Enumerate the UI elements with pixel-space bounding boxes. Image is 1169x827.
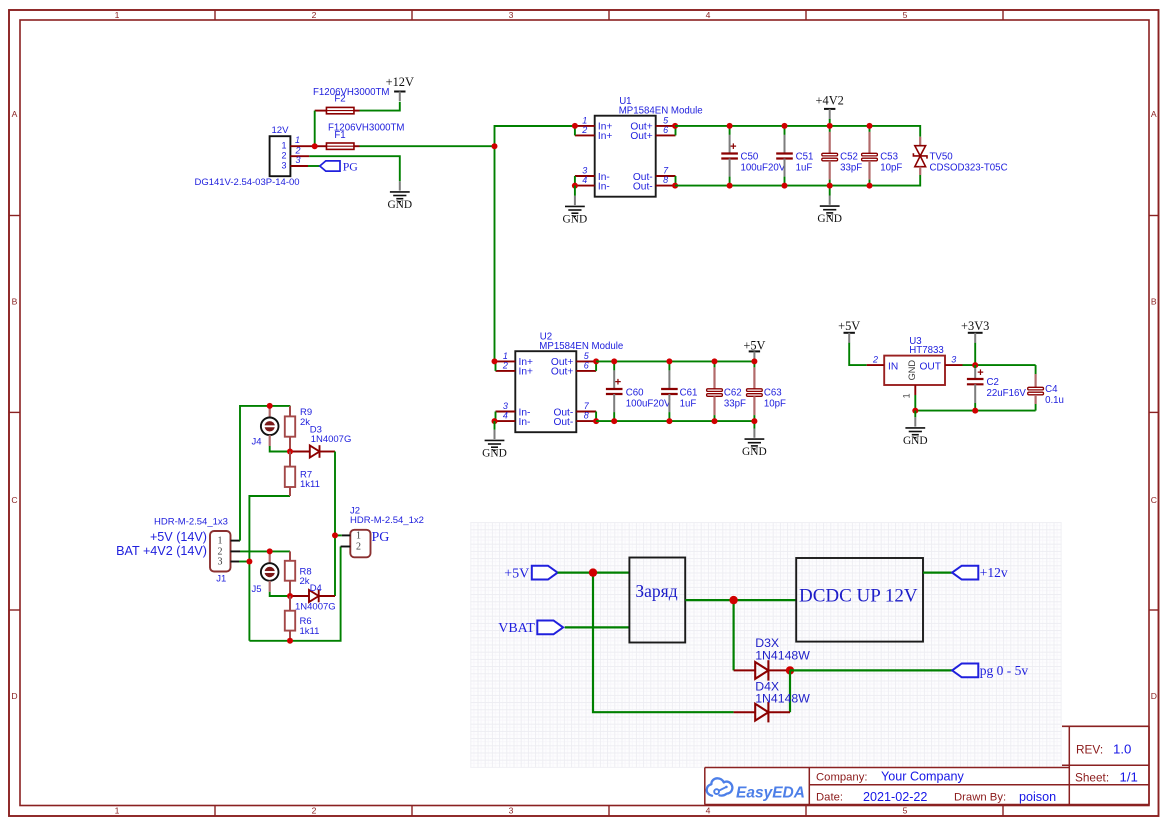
svg-text:8: 8 <box>584 411 589 421</box>
svg-text:22uF16V: 22uF16V <box>987 388 1027 399</box>
junction U1 pins 3-4 <box>572 183 578 189</box>
wire J4 bottom to node <box>270 446 290 452</box>
svg-text:In-: In- <box>519 417 531 428</box>
diode D3X 1N4148W <box>734 636 811 681</box>
svg-text:D: D <box>1151 691 1157 701</box>
wire D3 cathode down to J2/D4 <box>334 452 336 597</box>
svg-text:Out+: Out+ <box>551 367 573 378</box>
junction R9/D3/R7/J4 <box>287 449 293 455</box>
svg-text:+5V: +5V <box>504 566 529 581</box>
svg-text:GND: GND <box>563 213 588 225</box>
wire node down to D3X <box>732 600 734 670</box>
wire U3 OUT to +3V3 <box>963 364 1036 366</box>
svg-text:CDSOD323-T05C: CDSOD323-T05C <box>930 163 1008 174</box>
svg-text:1N4007G: 1N4007G <box>311 434 352 445</box>
wire VBAT to charge block <box>565 626 630 628</box>
svg-text:5: 5 <box>903 806 908 816</box>
diode D3 1N4007G <box>290 424 351 458</box>
ground (12V input) <box>387 181 412 211</box>
svg-text:6: 6 <box>663 125 668 135</box>
svg-text:OUT: OUT <box>919 362 941 373</box>
U3 pin 1 (GND) <box>902 385 916 398</box>
ground (U1 input) <box>563 196 588 226</box>
op-amp U2 MP1584EN Module <box>496 332 624 433</box>
power +5V (U2 output) <box>743 339 765 359</box>
wire D3X node to pg port <box>790 669 952 671</box>
svg-text:3: 3 <box>281 160 286 170</box>
svg-text:100uF20V: 100uF20V <box>626 398 671 409</box>
wire +5V to charge block <box>558 571 630 573</box>
fuse F2 <box>313 87 389 114</box>
svg-text:HDR-M-2.54_1x3: HDR-M-2.54_1x3 <box>154 516 228 527</box>
connector J2 HDR-M-2.54_1x2 <box>350 505 424 557</box>
svg-text:In+: In+ <box>598 131 612 142</box>
svg-text:C4: C4 <box>1045 384 1058 395</box>
pin 3 <box>290 155 308 166</box>
junction node A <box>492 143 498 149</box>
svg-text:Your Company: Your Company <box>881 770 965 784</box>
svg-text:GND: GND <box>482 447 507 459</box>
svg-text:C: C <box>11 495 17 505</box>
svg-text:1: 1 <box>218 536 223 547</box>
capacitor C2 <box>967 365 1026 411</box>
pin 2 <box>290 145 309 156</box>
svg-text:+12V: +12V <box>386 75 414 89</box>
svg-text:DG141V-2.54-03P-14-00: DG141V-2.54-03P-14-00 <box>194 177 299 188</box>
junction U2 pins 1-2 <box>492 358 498 364</box>
junction 5V rail <box>712 358 718 364</box>
svg-text:2: 2 <box>581 125 587 135</box>
wire U2 Out- rail <box>596 420 754 422</box>
junction gnd rail <box>782 183 788 189</box>
svg-text:Заряд: Заряд <box>635 581 677 601</box>
svg-text:VBAT: VBAT <box>498 621 535 636</box>
svg-text:2: 2 <box>312 806 317 816</box>
svg-text:Out-: Out- <box>633 181 653 192</box>
resistor R6 1k11 <box>285 596 320 641</box>
svg-text:TV50: TV50 <box>930 152 954 163</box>
block: charge (Заряд) <box>629 558 685 643</box>
capacitor C4 <box>1028 365 1064 411</box>
junction R6 bottom <box>287 638 293 644</box>
jumper J5 <box>252 551 279 595</box>
wire U3 gnd rail <box>915 395 1035 411</box>
svg-text:F1206VH3000TM: F1206VH3000TM <box>313 87 389 98</box>
svg-text:C51: C51 <box>796 152 814 163</box>
svg-text:1: 1 <box>503 351 508 361</box>
wire node A down to U2 In+ <box>494 146 496 361</box>
J1 pin 1 <box>231 540 241 542</box>
wire J1.1 up to top rail <box>240 406 290 541</box>
svg-text:HT7833: HT7833 <box>909 345 943 356</box>
svg-text:+5V: +5V <box>838 319 860 333</box>
wire D3X node down to D4X <box>789 670 791 712</box>
svg-text:C61: C61 <box>680 387 698 398</box>
svg-text:4: 4 <box>706 806 711 816</box>
wire U2 In- to ground <box>494 421 496 430</box>
svg-text:BAT +4V2 (14V): BAT +4V2 (14V) <box>116 544 207 558</box>
svg-text:2: 2 <box>502 360 508 370</box>
svg-text:1: 1 <box>115 10 120 20</box>
wire +5V to U3 IN <box>849 343 867 365</box>
capacitor C62 <box>707 361 746 421</box>
svg-text:1N4007G: 1N4007G <box>295 601 336 612</box>
resistor R9 2k <box>285 406 312 452</box>
svg-text:PG: PG <box>372 530 390 545</box>
jumper J4 <box>252 406 279 448</box>
power +4V2 <box>816 94 844 120</box>
svg-text:1.0: 1.0 <box>1113 742 1131 757</box>
svg-text:2k: 2k <box>300 576 310 587</box>
ground (4V2 rail) <box>829 186 831 196</box>
power +3V3 <box>961 319 989 343</box>
wire pin2 to GND <box>309 156 400 181</box>
svg-text:J4: J4 <box>252 437 262 448</box>
svg-text:IN: IN <box>888 362 898 373</box>
svg-text:pg 0 - 5v: pg 0 - 5v <box>980 663 1029 678</box>
diode D4X 1N4148W <box>734 679 811 722</box>
title block <box>705 726 1149 804</box>
svg-text:10pF: 10pF <box>880 163 902 174</box>
wire charge out to DCDC <box>685 599 796 601</box>
connector J1 HDR-M-2.54_1x3 <box>116 516 230 584</box>
svg-text:10pF: 10pF <box>764 398 786 409</box>
net port pg 0 - 5v <box>952 663 1028 678</box>
svg-text:1: 1 <box>902 393 912 398</box>
junction 5V rail <box>666 358 672 364</box>
J1 pin 2 <box>231 550 241 552</box>
svg-text:3: 3 <box>509 10 514 20</box>
capacitor C52 <box>822 126 862 186</box>
svg-text:3: 3 <box>295 155 300 165</box>
wire U1 Out+ rail <box>675 126 920 137</box>
junction 5V rail at C63 <box>751 358 757 364</box>
junction J2.1 <box>332 532 338 538</box>
svg-text:Sheet:: Sheet: <box>1075 771 1109 785</box>
svg-text:Date:: Date: <box>816 792 843 804</box>
svg-text:1k11: 1k11 <box>300 479 320 490</box>
svg-text:GND: GND <box>817 213 842 225</box>
junction 4V2 rail <box>827 123 833 129</box>
svg-text:D4: D4 <box>310 583 322 594</box>
svg-text:C60: C60 <box>626 387 644 398</box>
U3 pin 3 <box>945 354 963 365</box>
svg-text:3: 3 <box>582 165 587 175</box>
capacitor C50 <box>721 126 785 186</box>
svg-text:poison: poison <box>1019 790 1056 804</box>
svg-text:GND: GND <box>387 199 412 211</box>
capacitor C51 <box>776 126 813 186</box>
ground (U2 input) <box>482 430 507 460</box>
svg-text:12V: 12V <box>271 125 289 136</box>
junction gnd rail at C63 <box>751 418 757 424</box>
junction charge out <box>729 596 737 604</box>
svg-text:PG: PG <box>343 159 359 173</box>
junction J1.3 <box>246 559 252 565</box>
junction J5/R8/D4/R6 <box>287 593 293 599</box>
junction U1 pins 7-8 <box>672 183 678 189</box>
junction gnd rail <box>666 418 672 424</box>
svg-text:1: 1 <box>356 531 361 542</box>
svg-text:3: 3 <box>503 401 508 411</box>
svg-text:3: 3 <box>509 806 514 816</box>
wire node A up to U1 In+ <box>495 126 575 146</box>
junction J1.2 / J5 <box>267 548 273 554</box>
connector P1 12V DG141V-2.54-03P-14-00 <box>194 125 299 188</box>
EasyEDA logo <box>707 778 805 801</box>
svg-text:+4V2: +4V2 <box>816 94 844 108</box>
junction U3 gnd <box>912 408 918 414</box>
capacitor C60 <box>606 361 671 421</box>
block: DCDC UP 12V <box>796 558 923 642</box>
svg-text:B: B <box>12 297 18 307</box>
TVS diode TV50 CDSOD323-T05C <box>913 137 1007 175</box>
svg-text:GND: GND <box>907 360 917 381</box>
svg-text:2: 2 <box>294 145 300 155</box>
svg-text:REV:: REV: <box>1076 742 1103 756</box>
svg-text:2: 2 <box>872 354 878 364</box>
net port +5V (block diagram) <box>504 566 557 582</box>
svg-text:1N4148W: 1N4148W <box>755 648 810 662</box>
svg-text:+: + <box>730 141 736 153</box>
regulator U3 HT7833 <box>884 336 945 385</box>
svg-text:B: B <box>1151 297 1157 307</box>
svg-text:1k11: 1k11 <box>300 626 320 637</box>
junction top rail / J4 <box>267 403 273 409</box>
svg-text:+: + <box>615 377 621 389</box>
diode D4 1N4007G <box>290 583 336 613</box>
svg-text:HDR-M-2.54_1x2: HDR-M-2.54_1x2 <box>350 515 424 526</box>
svg-text:4: 4 <box>503 411 508 421</box>
svg-text:GND: GND <box>903 435 928 447</box>
junction U2 pins 3-4 <box>492 418 498 424</box>
wire +5V down to D4X <box>593 573 734 713</box>
svg-text:Drawn By:: Drawn By: <box>954 792 1006 804</box>
svg-text:1: 1 <box>295 135 300 145</box>
U3 pin 2 <box>867 354 885 365</box>
svg-text:2k: 2k <box>300 417 310 428</box>
wire pin3 to PG flag <box>308 165 320 167</box>
svg-text:+5V (14V): +5V (14V) <box>150 530 207 544</box>
svg-text:MP1584EN Module: MP1584EN Module <box>539 341 623 352</box>
wire pin1 to F2 (vertical) <box>314 111 316 147</box>
svg-text:100uF20V: 100uF20V <box>741 163 786 174</box>
net port VBAT <box>498 621 563 637</box>
junction +5V node <box>589 568 597 576</box>
svg-text:Out-: Out- <box>553 417 573 428</box>
svg-text:33pF: 33pF <box>724 398 746 409</box>
power +12V <box>386 75 414 101</box>
svg-text:F2: F2 <box>334 94 345 105</box>
junction gnd rail <box>867 183 873 189</box>
wire U2 Out+ rail <box>596 360 754 362</box>
svg-text:2021-02-22: 2021-02-22 <box>863 790 927 804</box>
svg-text:MP1584EN Module: MP1584EN Module <box>619 105 703 116</box>
junction U3 out <box>972 362 978 368</box>
svg-text:In-: In- <box>598 181 610 192</box>
wire F1 to node A <box>360 145 495 147</box>
junction gnd rail <box>712 418 718 424</box>
svg-text:2: 2 <box>312 10 317 20</box>
svg-text:33pF: 33pF <box>840 163 862 174</box>
wire +4V2 stub <box>829 119 831 126</box>
svg-text:DCDC UP 12V: DCDC UP 12V <box>799 586 918 607</box>
power +5V (U3 input) <box>838 319 860 343</box>
J2 pin 1 <box>342 534 351 536</box>
svg-text:1: 1 <box>115 806 120 816</box>
wire J1.2 to R8/J5 <box>240 550 290 552</box>
svg-text:+: + <box>977 367 983 379</box>
wire U1 Out- rail <box>675 175 920 186</box>
fuse F1 <box>315 123 405 150</box>
svg-text:C50: C50 <box>741 152 759 163</box>
svg-text:1/1: 1/1 <box>1120 770 1138 785</box>
svg-text:6: 6 <box>584 360 589 370</box>
junction 4V2 rail <box>727 123 733 129</box>
wire +3V3 down <box>974 343 976 365</box>
svg-text:5: 5 <box>903 10 908 20</box>
svg-text:+12v: +12v <box>980 565 1008 580</box>
junction U2 pins 5-6 <box>593 358 599 364</box>
svg-text:A: A <box>12 109 18 119</box>
svg-text:0.1u: 0.1u <box>1045 395 1064 406</box>
junction gnd rail <box>611 418 617 424</box>
junction C2 gnd <box>972 408 978 414</box>
wire J5 bottom to node <box>270 592 290 596</box>
J2 pin 2 <box>341 546 351 548</box>
svg-text:1uF: 1uF <box>796 163 813 174</box>
capacitor C61 <box>661 361 697 421</box>
svg-text:A: A <box>1151 109 1157 119</box>
net port PG <box>320 159 358 173</box>
svg-text:C63: C63 <box>764 387 782 398</box>
J1 pin 3 <box>231 561 240 563</box>
junction U2 pins 7-8 <box>593 418 599 424</box>
svg-text:4: 4 <box>582 175 587 185</box>
svg-text:1: 1 <box>281 141 286 151</box>
resistor R7 1k11 <box>285 452 320 497</box>
svg-text:C52: C52 <box>840 152 858 163</box>
svg-text:1uF: 1uF <box>680 398 697 409</box>
capacitor C63 <box>747 361 787 421</box>
svg-text:3: 3 <box>951 354 956 364</box>
svg-text:C: C <box>1151 495 1157 505</box>
capacitor C53 <box>862 126 903 186</box>
junction U1 pins 1-2 <box>572 123 578 129</box>
svg-text:1N4148W: 1N4148W <box>755 692 810 706</box>
junction D3X cathode <box>786 666 794 674</box>
svg-text:In+: In+ <box>519 367 533 378</box>
svg-text:Out+: Out+ <box>630 131 652 142</box>
junction pin1/F1/F2 <box>312 143 318 149</box>
svg-text:3: 3 <box>218 557 223 568</box>
wire J1.3 to lower vertical <box>239 561 249 563</box>
wire F2 to +12V <box>360 102 400 111</box>
wire R7 bottom to bottom rail (long vertical) <box>249 496 290 641</box>
net port +12v <box>952 565 1008 580</box>
wire gnd stub U3 <box>914 411 916 418</box>
junction 4V2 rail <box>867 123 873 129</box>
svg-text:C62: C62 <box>724 387 742 398</box>
svg-text:GND: GND <box>742 446 767 458</box>
svg-text:+3V3: +3V3 <box>961 319 989 333</box>
wire J2.1 to D3/D4 vertical <box>335 534 342 536</box>
svg-text:EasyEDA: EasyEDA <box>736 784 805 801</box>
svg-text:4: 4 <box>706 10 711 20</box>
junction 4V2 rail <box>782 123 788 129</box>
svg-text:2: 2 <box>356 542 361 553</box>
wire bottom rail to J2.2 <box>249 547 340 641</box>
op-amp U1 MP1584EN Module <box>575 96 703 197</box>
ground (U3) <box>903 417 928 447</box>
svg-text:1: 1 <box>582 115 587 125</box>
svg-text:D: D <box>11 691 17 701</box>
pin 1 <box>290 135 314 146</box>
svg-text:+5V: +5V <box>743 339 765 353</box>
svg-text:J1: J1 <box>216 574 226 585</box>
svg-text:C53: C53 <box>880 152 898 163</box>
junction 5V rail <box>611 358 617 364</box>
junction gnd rail <box>827 183 833 189</box>
svg-text:J5: J5 <box>252 584 262 595</box>
junction U1 pins 5-6 <box>672 123 678 129</box>
junction gnd rail <box>727 183 733 189</box>
resistor R8 2k <box>285 551 312 596</box>
svg-text:8: 8 <box>663 175 668 185</box>
svg-text:C2: C2 <box>987 377 999 388</box>
wire DCDC out to +12v port <box>923 571 952 573</box>
wire U1 In- to ground <box>574 186 576 196</box>
svg-text:F1: F1 <box>334 130 345 141</box>
svg-text:2: 2 <box>281 151 286 161</box>
svg-text:Company:: Company: <box>816 772 868 784</box>
ground (5V rail) <box>753 421 755 428</box>
